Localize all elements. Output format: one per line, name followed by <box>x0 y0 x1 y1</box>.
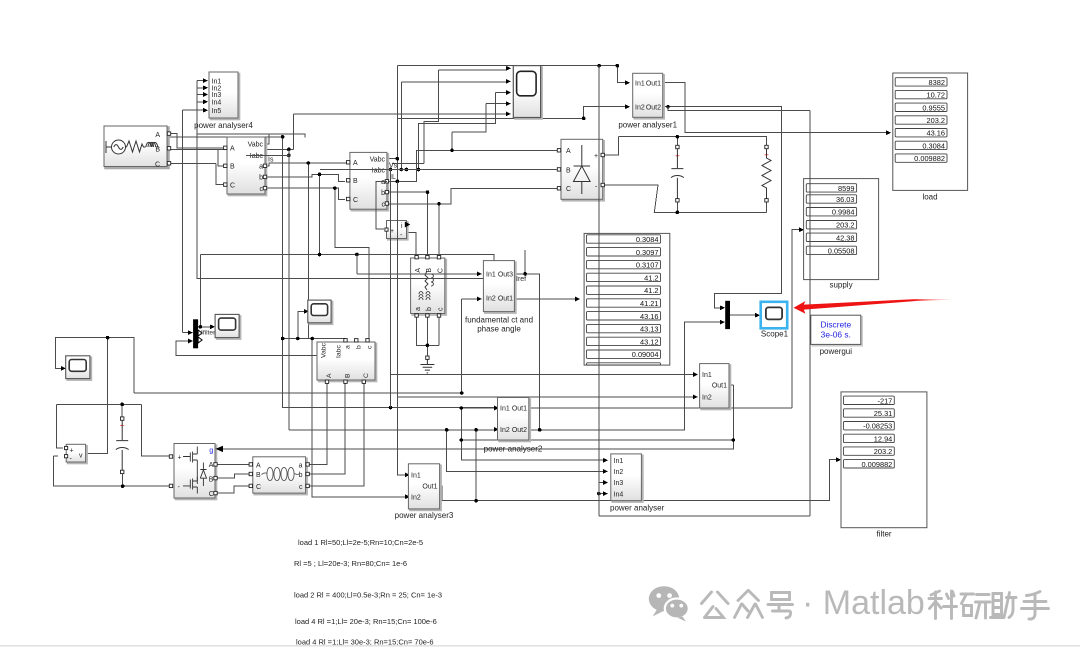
wire scope in5 line <box>294 113 507 115</box>
wire scope4 feed <box>283 311 346 342</box>
svg-text:36.03: 36.03 <box>836 195 855 204</box>
wire y515.8 line to power analyser In3 <box>599 483 810 516</box>
svg-text:load 1 Rl=50;Ll=2e-5;Rn=10;Cn=: load 1 Rl=50;Ll=2e-5;Rn=10;Cn=2e-5 <box>298 538 423 547</box>
three-phase V-I measurement 3 flipped <box>317 339 377 384</box>
watermark wechat icon <box>649 586 689 621</box>
scope4 <box>308 300 333 324</box>
wire VI2 a branch down to pa3 In1 <box>397 181 405 475</box>
svg-text:Out1: Out1 <box>498 296 513 303</box>
svg-text:In2: In2 <box>614 469 624 476</box>
wire current meas i out to xfmr A <box>407 233 416 256</box>
svg-text:41.2: 41.2 <box>644 273 658 282</box>
watermark glyph zhong <box>735 591 763 618</box>
wire pa4 In5 riser <box>182 110 203 332</box>
svg-text:B: B <box>209 476 214 483</box>
wire pa3 In2 feed from VI3 drop <box>312 339 405 498</box>
wire scope in4 riser <box>452 104 506 151</box>
svg-text:In1: In1 <box>411 473 421 480</box>
svg-text:B: B <box>230 164 235 171</box>
svg-text:B: B <box>256 472 261 479</box>
wire Iabc1 to drop x288.9 to power analyser In2 <box>246 149 289 429</box>
svg-text:0.3084: 0.3084 <box>636 235 659 244</box>
svg-text:Rl =5 ; Ll=20e-3; Rn=80;Cn= 1e: Rl =5 ; Ll=20e-3; Rn=80;Cn= 1e-6 <box>294 559 407 568</box>
wire pa1 In1 feed <box>617 66 625 83</box>
svg-text:+: + <box>70 448 74 455</box>
svg-text:load 4 Rl =1;Ll= 20e-3; Rn=15;: load 4 Rl =1;Ll= 20e-3; Rn=15;Cn= 100e-6 <box>295 617 437 626</box>
svg-text:203.2: 203.2 <box>927 116 946 125</box>
svg-text:Vabc: Vabc <box>321 342 328 358</box>
wire Iref out3 <box>514 250 539 430</box>
svg-text:phase angle: phase angle <box>477 325 521 334</box>
svg-text:In2: In2 <box>500 427 510 434</box>
svg-text:In2: In2 <box>486 296 496 303</box>
wire cap right branch stubs <box>676 137 678 213</box>
svg-text:Iabc: Iabc <box>336 345 343 358</box>
wire rectifier minus rail <box>603 185 767 212</box>
demux filter mux <box>193 319 216 348</box>
svg-text:In1: In1 <box>212 78 222 85</box>
svg-text:power analyser: power analyser <box>610 504 665 513</box>
svg-text:C: C <box>363 373 370 378</box>
load display block <box>893 73 968 202</box>
current measurement block <box>385 221 410 240</box>
svg-text:Iabc: Iabc <box>372 167 386 174</box>
svg-text:a: a <box>381 179 385 186</box>
svg-text:A: A <box>353 160 358 167</box>
svg-text:power analyser4: power analyser4 <box>194 121 253 130</box>
svg-text:43.13: 43.13 <box>640 325 659 334</box>
wire igbt outs to rlc <box>217 464 249 493</box>
svg-text:0.3097: 0.3097 <box>636 248 659 257</box>
svg-text:C: C <box>209 491 214 498</box>
Scope1 selected <box>761 302 789 339</box>
wire pa4 input bus riser x197.2 to fundamental In1 line <box>197 81 483 279</box>
watermark glyph zhu <box>991 593 1017 618</box>
svg-text:25.31: 25.31 <box>874 409 893 418</box>
wire scope in2 from Iabc riser <box>401 82 506 170</box>
svg-text:0.09004: 0.09004 <box>632 350 659 359</box>
three-phase V-I measurement 2 <box>347 152 389 210</box>
svg-text:Is: Is <box>268 157 274 164</box>
svg-text:C: C <box>230 182 235 189</box>
svg-text:load: load <box>922 193 937 202</box>
watermark glyph yan <box>961 594 990 618</box>
watermark glyph ke <box>929 591 957 619</box>
svg-text:C: C <box>155 161 160 168</box>
svg-text:43.16: 43.16 <box>927 129 946 138</box>
igbt inverter block <box>174 444 217 500</box>
power analyser subsystem <box>610 454 665 513</box>
svg-text:C: C <box>566 186 571 193</box>
svg-text:In1: In1 <box>635 80 645 87</box>
svg-text:Ifilter: Ifilter <box>201 330 216 337</box>
svg-text:B: B <box>345 373 352 378</box>
svg-text:load 2 Rl = 400;Ll=0.5e-3;Rn =: load 2 Rl = 400;Ll=0.5e-3;Rn = 25; Cn= 1… <box>294 591 442 600</box>
svg-text:In1: In1 <box>702 372 712 379</box>
wire scope in1 staircase from Vs <box>392 70 506 164</box>
wire VI2 a to current meas plus <box>376 181 387 229</box>
svg-text:powergui: powergui <box>820 347 853 356</box>
wire v out riser <box>86 338 135 454</box>
svg-text:In2: In2 <box>635 104 645 111</box>
wire y118.3 to pa1 In2 <box>397 107 625 119</box>
scope2 <box>66 356 92 380</box>
svg-text:In3: In3 <box>614 480 624 487</box>
svg-text:42.38: 42.38 <box>836 233 855 242</box>
svg-text:B: B <box>155 147 160 154</box>
power analyser4 subsystem <box>194 72 253 130</box>
svg-text:C: C <box>353 197 358 204</box>
power analyser3 subsystem <box>395 464 454 520</box>
wire fundamental Out1 to big display <box>514 298 575 300</box>
svg-text:In2: In2 <box>411 494 421 501</box>
wire pa1 Out2 branch to x810 drop <box>668 107 810 516</box>
wire x599 long vertical <box>598 66 600 516</box>
svg-text:8599: 8599 <box>838 184 854 193</box>
wire vi3 Iabc out to mux2 <box>176 341 317 356</box>
svg-text:power analyser3: power analyser3 <box>395 511 454 520</box>
universal bridge rectifier <box>557 139 604 201</box>
svg-text:Vabc: Vabc <box>248 142 264 149</box>
wire sub1 In2 line <box>397 396 693 398</box>
svg-text:0.3084: 0.3084 <box>922 141 945 150</box>
resistor branch <box>762 145 771 202</box>
three-phase transformer block <box>411 256 447 318</box>
wire demux area feeds <box>182 327 210 333</box>
wire power analyser In1 feed from g riser <box>461 408 733 460</box>
svg-text:In3: In3 <box>212 92 222 99</box>
wire vi3 b top riser <box>356 339 367 342</box>
wire VI1 b to VI2 B with branch to fundamental In1 line <box>265 174 345 254</box>
svg-text:3e-06 s.: 3e-06 s. <box>821 330 851 340</box>
input arrowheads <box>61 66 891 499</box>
svg-text:Vs: Vs <box>389 163 398 170</box>
wire rlc outs up to VI3 <box>309 382 364 486</box>
svg-text:Iref: Iref <box>516 276 526 283</box>
svg-text:203.2: 203.2 <box>874 447 893 456</box>
svg-text:Out3: Out3 <box>498 272 513 279</box>
svg-text:c: c <box>437 307 444 311</box>
wire rectifier plus to cap and res top rail <box>603 137 767 155</box>
svg-text:B: B <box>566 167 571 174</box>
svg-text:12.94: 12.94 <box>874 434 893 443</box>
filter display block <box>841 392 927 539</box>
wire src B bus to scope in5 riser <box>169 114 294 166</box>
watermark glyph shou <box>1022 592 1049 620</box>
svg-text:power analyser1: power analyser1 <box>618 121 677 130</box>
svg-text:Out1: Out1 <box>422 484 437 491</box>
wire Is line VI1 a to VI2 A <box>265 163 348 339</box>
wire mux1 out to scope1 <box>730 314 755 316</box>
svg-text:0.9555: 0.9555 <box>922 103 945 112</box>
svg-text:In1: In1 <box>500 406 510 413</box>
wire pa1 Out1 to load display <box>663 83 886 133</box>
wire Iabc long line to rectifier B <box>320 168 557 170</box>
svg-text:8382: 8382 <box>929 78 945 87</box>
svg-text:203.2: 203.2 <box>836 221 855 230</box>
wire sub1 In1 line <box>390 374 693 376</box>
svg-text:Scope1: Scope1 <box>761 330 789 339</box>
svg-text:filter: filter <box>876 530 891 539</box>
svg-text:0.05508: 0.05508 <box>828 246 855 255</box>
svg-text:In2: In2 <box>702 395 712 402</box>
svg-text:A: A <box>230 146 235 153</box>
wire VI1 c to VI2 C with branch down to VI3 c <box>265 188 369 339</box>
power analyser2 subsystem <box>484 398 543 454</box>
wire VI2 c out riser to rectifier C <box>387 188 557 255</box>
svg-text:a: a <box>345 345 352 349</box>
three-phase series RLC branch <box>249 457 309 495</box>
big display block <box>584 233 670 365</box>
svg-text:a: a <box>299 462 303 469</box>
wire power analyser In4 feed <box>476 430 603 501</box>
wire cap left bottom rail <box>53 456 171 486</box>
wire pa1 Out2 to mux riser <box>663 107 782 308</box>
svg-text:0.009882: 0.009882 <box>861 460 892 469</box>
svg-text:b: b <box>259 175 263 182</box>
wire pa2 Out1 line to supply riser <box>529 230 799 408</box>
svg-text:· Matlab: · Matlab <box>802 584 925 622</box>
fundamental ct and phase angle subsystem <box>465 261 533 334</box>
wire pa3 out to filter line <box>440 460 836 501</box>
wire junction v to scope2 <box>56 338 108 369</box>
svg-text:Iabc: Iabc <box>250 153 264 160</box>
wire Vs out and riser to pa1 line <box>387 66 617 397</box>
wire src C bus to VI1 C <box>169 163 223 184</box>
svg-text:In4: In4 <box>212 100 222 107</box>
wire fundamental In1 feed over xfmr <box>357 255 477 274</box>
wire igbt g line <box>221 385 733 449</box>
svg-text:v: v <box>79 453 83 460</box>
power analyser1 subsystem <box>618 73 677 129</box>
svg-text:43.12: 43.12 <box>640 337 659 346</box>
wire Vabc1 top line <box>197 134 305 144</box>
svg-text:A: A <box>415 268 422 273</box>
wire line y136.9 with drop to power analyser In1 <box>169 137 494 408</box>
svg-text:10.72: 10.72 <box>927 91 946 100</box>
wire power analyser In2 feed <box>447 430 603 472</box>
svg-text:In1: In1 <box>486 272 496 279</box>
svg-text:43.16: 43.16 <box>640 312 659 321</box>
wire scope in3 staircase <box>419 93 507 170</box>
bottom separator line <box>0 645 1080 647</box>
svg-text:A: A <box>155 132 160 139</box>
svg-text:-0.08253: -0.08253 <box>863 422 892 431</box>
wire pa2 Out2 to mux2 riser <box>529 322 720 430</box>
svg-text:b: b <box>426 307 433 311</box>
capacitor branch right <box>671 145 684 202</box>
svg-text:B: B <box>353 178 358 185</box>
three-phase source block <box>104 126 171 168</box>
svg-text:Out2: Out2 <box>512 427 527 434</box>
svg-text:supply: supply <box>829 281 852 290</box>
ground symbol <box>420 356 434 373</box>
scope block top <box>513 66 542 119</box>
svg-text:power analyser2: power analyser2 <box>484 445 543 454</box>
wire VI2 a out to rectifier A riser <box>387 150 557 181</box>
svg-text:+: + <box>594 153 598 160</box>
svg-text:b: b <box>381 190 385 197</box>
svg-text:g: g <box>209 446 213 455</box>
svg-text:Out1: Out1 <box>512 406 527 413</box>
svg-text:A: A <box>209 462 214 469</box>
wire v-signal y393 line <box>134 392 463 394</box>
svg-text:c: c <box>367 345 374 349</box>
svg-text:Out2: Out2 <box>646 104 661 111</box>
svg-text:Discrete: Discrete <box>820 320 851 330</box>
unnamed subsystem In1 In2 Out1 <box>700 364 731 410</box>
watermark glyph gong <box>702 592 729 618</box>
svg-text:C: C <box>256 484 261 491</box>
svg-text:a: a <box>415 307 422 311</box>
svg-text:Vabc: Vabc <box>370 157 386 164</box>
svg-text:fundamental ct and: fundamental ct and <box>465 316 533 325</box>
svg-text:+: + <box>178 455 182 462</box>
svg-text:c: c <box>299 484 303 491</box>
svg-text:41.21: 41.21 <box>640 299 659 308</box>
svg-text:0.3107: 0.3107 <box>636 261 659 270</box>
wire VI2 b out to xfmr B <box>387 192 428 255</box>
svg-text:a: a <box>259 164 263 171</box>
svg-text:A: A <box>256 462 261 469</box>
wire src A to VI1 A <box>169 134 223 148</box>
wire scope3 line y254.5 to fundamental top <box>200 255 493 327</box>
svg-text:C: C <box>437 268 444 273</box>
svg-text:0.009882: 0.009882 <box>914 154 945 163</box>
wire fundamental In2 feed <box>462 299 477 393</box>
wire pa2 In1 line <box>461 407 494 409</box>
svg-text:A: A <box>566 148 571 155</box>
svg-text:Out1: Out1 <box>712 383 727 390</box>
svg-text:In4: In4 <box>614 491 624 498</box>
svg-text:b: b <box>299 472 303 479</box>
svg-text:A: A <box>326 373 333 378</box>
svg-text:b: b <box>355 345 362 349</box>
capacitor branch left <box>116 417 129 474</box>
mux before Scope1 <box>725 301 730 329</box>
wire cap left top rail <box>56 404 171 456</box>
supply display block <box>804 179 879 290</box>
red annotation arrow <box>794 299 960 314</box>
three-phase V-I measurement 1 <box>224 137 267 196</box>
svg-text:41.2: 41.2 <box>644 286 658 295</box>
svg-text:0.9984: 0.9984 <box>832 208 855 217</box>
wire xfmr bottom to ground <box>417 317 439 356</box>
svg-text:-217: -217 <box>878 396 893 405</box>
scope3 <box>215 314 241 339</box>
voltage measurement block <box>65 444 88 463</box>
svg-text:In1: In1 <box>614 458 624 465</box>
powergui block <box>811 315 863 356</box>
svg-text:In5: In5 <box>212 108 222 115</box>
watermark glyph hao <box>768 593 793 619</box>
wire pa2 In2 line <box>289 429 494 431</box>
svg-text:Out1: Out1 <box>646 80 661 87</box>
wire IL drop joining pa2 In1 line <box>390 170 392 408</box>
